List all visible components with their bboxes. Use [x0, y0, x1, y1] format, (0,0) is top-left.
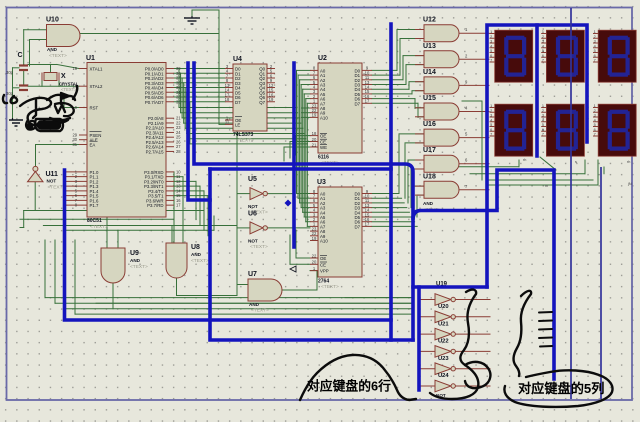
svg-text:XTAL1: XTAL1: [90, 67, 104, 72]
svg-text:<TEXT>: <TEXT>: [250, 244, 268, 250]
svg-text:20: 20: [312, 260, 317, 265]
svg-text:1: 1: [542, 104, 544, 108]
NOT gate U19 keyboard: [435, 294, 455, 310]
svg-text:20: 20: [312, 137, 317, 142]
svg-text:<TEXT>: <TEXT>: [236, 138, 254, 144]
svg-text:NOT: NOT: [248, 204, 258, 209]
svg-text:U24: U24: [438, 373, 449, 379]
svg-text:4: 4: [490, 118, 492, 122]
wire crystal to XTAL1: [24, 65, 79, 73]
svg-text:5: 5: [542, 123, 544, 127]
wire thin blue x571: [570, 8, 572, 399]
annotation ticks: [539, 312, 552, 347]
svg-text:U15: U15: [423, 95, 436, 102]
svg-text:6: 6: [594, 54, 596, 58]
wire bus vertical x194 mid horizontal: [194, 63, 413, 340]
wire U5 U6 inputs: [233, 130, 250, 296]
svg-text:VPP: VPP: [320, 269, 329, 274]
latch U4 74LS373: [225, 56, 275, 144]
svg-text:EA: EA: [90, 143, 96, 148]
AND gate U7: [248, 271, 282, 314]
wire bus P1 vertical: [65, 170, 392, 320]
svg-text:<TEXT>: <TEXT>: [130, 264, 148, 270]
svg-text:6: 6: [542, 128, 544, 132]
svg-text:2: 2: [542, 35, 544, 39]
wire bus vertical x391: [389, 24, 393, 340]
wire bus vertical x210: [210, 169, 413, 340]
bus U2 data to gate column: [372, 70, 418, 103]
AND gate U16: [415, 121, 468, 146]
svg-text:对应键盘的6行: 对应键盘的6行: [307, 379, 391, 394]
svg-text:3: 3: [542, 40, 544, 44]
svg-text:<TEXT>: <TEXT>: [191, 258, 209, 264]
svg-text:19: 19: [72, 66, 77, 71]
svg-text:U17: U17: [423, 147, 436, 154]
svg-text:U16: U16: [423, 121, 436, 128]
svg-text:U20: U20: [438, 304, 449, 310]
wire bus x294: [292, 63, 296, 247]
svg-text:6: 6: [542, 54, 544, 58]
svg-text:4: 4: [542, 118, 544, 122]
svg-text:AND: AND: [191, 252, 202, 257]
wire ground stem top: [192, 10, 219, 34]
svg-text:AND: AND: [47, 47, 58, 52]
capacitor C2: [6, 86, 28, 97]
svg-text:D7: D7: [235, 100, 241, 105]
svg-text:2: 2: [594, 35, 596, 39]
svg-text:<TEXT>: <TEXT>: [61, 87, 77, 92]
bus AD0-AD7 to U2/U3 address: [179, 69, 310, 227]
label AND column: [423, 201, 441, 213]
svg-text:AND: AND: [249, 302, 260, 307]
svg-text:2: 2: [594, 109, 596, 113]
wire U8 U9 outputs down: [113, 278, 237, 309]
7-segment display DS4: [490, 104, 533, 156]
wire keyboard rows: [45, 240, 435, 386]
svg-text:5: 5: [542, 49, 544, 53]
svg-text:<TEXT>: <TEXT>: [90, 224, 108, 230]
svg-text:1: 1: [542, 30, 544, 34]
svg-text:19: 19: [312, 236, 317, 241]
svg-text:U14: U14: [423, 69, 436, 76]
wire caps to ground: [13, 68, 20, 118]
svg-text:OE: OE: [320, 134, 326, 139]
svg-text:18: 18: [225, 97, 230, 102]
svg-text:U2: U2: [318, 55, 327, 62]
svg-text:1: 1: [490, 30, 492, 34]
wire U10 inputs: [24, 30, 47, 66]
NOT gate U24 keyboard: [435, 380, 455, 392]
svg-text:A10: A10: [320, 115, 328, 120]
NOT gate U21 keyboard: [435, 328, 455, 344]
svg-text:3: 3: [490, 114, 492, 118]
svg-text:s: s: [575, 160, 577, 164]
label U19: [436, 282, 448, 288]
wire bus staircase right: [413, 170, 554, 379]
svg-text:rh: rh: [523, 158, 526, 162]
svg-text:U23: U23: [438, 356, 449, 362]
svg-text:Q7: Q7: [259, 100, 265, 105]
svg-text:4: 4: [542, 44, 544, 48]
AND gate U13: [415, 43, 468, 68]
bus U3 data to gate column: [372, 194, 417, 227]
7-segment display DS5: [541, 104, 584, 156]
annotation text keyboard rows: [307, 379, 391, 394]
svg-text:C: C: [18, 52, 23, 59]
svg-text:1: 1: [490, 104, 492, 108]
RAM U2 6116: [310, 55, 372, 166]
svg-text:U3: U3: [317, 179, 326, 186]
svg-text:7: 7: [490, 133, 492, 137]
svg-text:2: 2: [490, 109, 492, 113]
wire gate outputs to displays: [459, 33, 489, 190]
wire display interconnect: [455, 157, 604, 174]
svg-text:19: 19: [312, 113, 317, 118]
wire U7 output to U3 VPP: [282, 271, 317, 290]
bus entry arrow: [290, 266, 296, 272]
svg-text:U11: U11: [46, 171, 59, 178]
wire U2 control pins: [284, 136, 310, 161]
svg-text:4: 4: [594, 44, 596, 48]
svg-text:NOT: NOT: [47, 179, 57, 184]
7-segment display DS6: [593, 104, 636, 156]
svg-text:7: 7: [542, 133, 544, 137]
svg-text:CE: CE: [320, 262, 326, 267]
7-segment display DS2: [541, 30, 584, 82]
svg-text:A10: A10: [320, 239, 328, 244]
crystal X1: [42, 73, 79, 93]
7-segment display DS3: [593, 30, 636, 82]
svg-text:5: 5: [594, 123, 596, 127]
svg-text:2: 2: [542, 109, 544, 113]
NOT gate U23 keyboard: [435, 363, 455, 379]
svg-text:7: 7: [594, 133, 596, 137]
svg-text:11: 11: [225, 120, 230, 125]
svg-text:6: 6: [490, 128, 492, 132]
svg-text:U7: U7: [248, 271, 257, 278]
NOT gate U20 keyboard: [435, 311, 455, 327]
svg-text:WE: WE: [320, 145, 327, 150]
svg-text:80C51: 80C51: [87, 218, 102, 224]
svg-text:17: 17: [365, 99, 370, 104]
wire U10 output to U4 LE: [80, 34, 225, 125]
svg-text:P0.7/AD7: P0.7/AD7: [145, 100, 164, 105]
AND gate U18: [415, 173, 468, 198]
svg-text:<TEXT>: <TEXT>: [321, 284, 339, 290]
junction diamond: [285, 200, 292, 207]
svg-text:4: 4: [594, 118, 596, 122]
wire bus right elbow: [413, 285, 487, 289]
wire bus vertical x188: [188, 63, 210, 200]
svg-text:OE: OE: [320, 256, 326, 261]
NOT gate U11: [28, 166, 66, 190]
svg-text:3: 3: [594, 40, 596, 44]
svg-text:5: 5: [490, 123, 492, 127]
capacitor C1: [6, 52, 28, 75]
svg-text:5: 5: [490, 49, 492, 53]
ground left: [9, 118, 23, 126]
annotation blob keyboard cols: [430, 290, 478, 399]
wire U5 U6 outputs: [267, 194, 311, 228]
svg-text:28: 28: [176, 149, 181, 154]
svg-text:jN: jN: [627, 182, 632, 186]
wire lower mid horizontals: [96, 298, 411, 304]
svg-text:22: 22: [312, 253, 317, 258]
wire A8-A10 stubs: [302, 108, 310, 117]
AND gate U17: [415, 147, 468, 172]
svg-text:U12: U12: [423, 17, 436, 24]
svg-text:D7: D7: [354, 101, 360, 106]
svg-text:17: 17: [176, 203, 181, 208]
svg-text:P1.7: P1.7: [90, 203, 100, 208]
NOT gate U6: [248, 211, 268, 251]
svg-text:30p: 30p: [6, 91, 14, 96]
wire bus keyboard column vertical: [417, 287, 421, 390]
svg-text:U13: U13: [423, 43, 436, 50]
svg-text:3: 3: [490, 40, 492, 44]
EPROM U3 2764: [310, 179, 372, 290]
label NOT column: [436, 393, 446, 398]
svg-text:7: 7: [490, 59, 492, 63]
svg-text:17: 17: [365, 222, 370, 227]
svg-text:2764: 2764: [318, 279, 329, 285]
op-amp U1 microcontroller 80C51: [66, 55, 181, 230]
svg-text:D7: D7: [354, 224, 360, 229]
AND gate U12: [415, 17, 468, 42]
NOT gate U22 keyboard: [435, 346, 455, 362]
svg-text:U5: U5: [248, 176, 257, 183]
wire crystal to XTAL2: [24, 70, 79, 86]
wire RST: [64, 96, 79, 108]
svg-text:AND: AND: [423, 201, 434, 206]
svg-text:U8: U8: [191, 244, 200, 251]
bus P0 to U4: [174, 69, 225, 102]
svg-text:XTAL2: XTAL2: [90, 84, 104, 89]
svg-text:U1: U1: [86, 55, 95, 62]
wire bus mid to displays: [210, 167, 391, 171]
svg-text:X: X: [61, 73, 66, 80]
wire EA / U11: [35, 145, 79, 211]
wire P3.0 P3.1 to U8: [174, 172, 183, 243]
svg-text:1: 1: [594, 104, 596, 108]
NOT gate U5: [248, 176, 268, 216]
svg-text:31: 31: [72, 142, 77, 147]
svg-text:6116: 6116: [318, 155, 329, 161]
svg-text:U21: U21: [438, 321, 449, 327]
svg-text:LE: LE: [235, 122, 240, 127]
AND gate U14: [415, 69, 468, 94]
annotation blob keyboard rows: [300, 355, 416, 400]
svg-text:RST: RST: [90, 106, 99, 111]
wire bus display frame: [487, 25, 587, 287]
svg-text:CE: CE: [320, 140, 326, 145]
svg-text:P2.7/A15: P2.7/A15: [146, 149, 164, 154]
svg-text:18: 18: [312, 131, 317, 136]
svg-text:<TEXT>: <TEXT>: [49, 53, 67, 59]
AND gate U15: [415, 95, 468, 120]
wire under U1 horizontals: [20, 211, 237, 249]
svg-text:U18: U18: [423, 173, 436, 180]
svg-text:NOT: NOT: [248, 239, 258, 244]
svg-text:32: 32: [176, 99, 181, 104]
svg-text:rh: rh: [627, 160, 630, 164]
svg-text:U4: U4: [233, 56, 242, 63]
wire U3 control pins: [290, 230, 310, 264]
AND gate U8: [166, 243, 209, 278]
svg-text:U22: U22: [438, 339, 449, 345]
svg-text:P3.7/RD: P3.7/RD: [147, 203, 163, 208]
wire gate input verticals: [397, 30, 424, 218]
svg-text:U9: U9: [130, 250, 139, 257]
svg-text:对应键盘的5列: 对应键盘的5列: [518, 380, 604, 396]
wire thin blue x605: [600, 167, 602, 399]
svg-text:3: 3: [542, 114, 544, 118]
wire P3 pins down: [174, 181, 208, 235]
svg-text:7: 7: [542, 59, 544, 63]
svg-text:7: 7: [594, 59, 596, 63]
svg-text:AND: AND: [130, 258, 141, 263]
svg-text:4: 4: [490, 44, 492, 48]
svg-text:1: 1: [594, 30, 596, 34]
ground top: [184, 16, 200, 24]
display pin labels bottom: [523, 158, 632, 188]
wire inverter outputs: [456, 300, 491, 387]
svg-text:<TEXT>: <TEXT>: [251, 308, 269, 314]
svg-text:21: 21: [312, 142, 317, 147]
svg-text:U6: U6: [248, 211, 257, 218]
svg-text:3: 3: [594, 114, 596, 118]
svg-text:74LS373: 74LS373: [233, 132, 254, 138]
svg-text:m: m: [545, 184, 548, 188]
svg-text:5: 5: [594, 49, 596, 53]
wire display col3 feed: [462, 101, 598, 185]
svg-text:19: 19: [269, 97, 274, 102]
svg-text:CRYSTAL: CRYSTAL: [59, 82, 79, 87]
svg-text:6: 6: [490, 54, 492, 58]
svg-text:2: 2: [490, 35, 492, 39]
AND gate U9: [101, 248, 148, 283]
7-segment display DS1: [490, 30, 533, 82]
svg-text:6: 6: [594, 128, 596, 132]
AND gate U10: [46, 17, 80, 60]
svg-text:30p: 30p: [6, 70, 14, 75]
annotation text keyboard cols: [518, 380, 604, 396]
svg-text:U10: U10: [46, 17, 59, 24]
annotation scribble crystal: [11, 96, 17, 103]
